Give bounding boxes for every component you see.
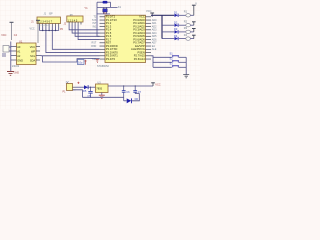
ground at switches bbox=[183, 75, 189, 78]
resistor R1 bbox=[184, 10, 194, 17]
svg-text:Y1: Y1 bbox=[84, 6, 88, 10]
svg-text:S2: S2 bbox=[170, 57, 174, 61]
switch S1 bbox=[153, 52, 186, 58]
diode D5 bbox=[83, 85, 88, 93]
power VCC stub row3 bbox=[192, 29, 196, 32]
wire LED row3 bbox=[162, 31, 174, 33]
wire J1 to U2 row11 bbox=[46, 31, 100, 53]
capacitor C2 reset group bbox=[78, 59, 100, 65]
wires J1 pins down bbox=[40, 27, 59, 31]
capacitor C3 left of U1 bbox=[2, 46, 11, 57]
svg-text:STC89C52: STC89C52 bbox=[97, 65, 109, 68]
power VCC port right of rail bbox=[151, 83, 161, 87]
wire U1 SDA branch bbox=[43, 56, 78, 62]
svg-text:SCL: SCL bbox=[30, 54, 36, 58]
U2 right net labels bbox=[152, 19, 157, 51]
svg-text:VCC: VCC bbox=[30, 28, 35, 31]
wire oscillator loop right bbox=[110, 2, 112, 7]
U2 left pin names bbox=[106, 15, 119, 61]
power VCC bar at U2 pin 40 bbox=[146, 9, 154, 17]
svg-text:VCC: VCC bbox=[155, 84, 160, 87]
svg-text:ISP: ISP bbox=[49, 13, 53, 16]
wire J2 pin1 to U2 bbox=[69, 25, 99, 30]
resistor R4 bbox=[184, 33, 194, 40]
junction dots on J1 bus bbox=[42, 30, 56, 31]
IC U1 body bbox=[17, 39, 37, 64]
svg-text:1 2 3 4 5 6 7: 1 2 3 4 5 6 7 bbox=[38, 21, 53, 24]
power VCC bar above U1 bbox=[30, 20, 41, 43]
wire reset branch bbox=[77, 59, 88, 62]
regulator U3 bbox=[96, 82, 109, 93]
svg-text:VCC: VCC bbox=[1, 34, 6, 37]
svg-text:GND: GND bbox=[17, 59, 23, 63]
wire switch ground vertical bbox=[185, 57, 187, 74]
power VCC pole top right bbox=[192, 2, 197, 16]
LED D4 bbox=[174, 34, 186, 40]
svg-text:C6: C6 bbox=[126, 90, 130, 94]
U2 left net labels bbox=[91, 16, 97, 61]
wire D5 to U3 bbox=[88, 86, 95, 88]
switch S3 bbox=[153, 62, 186, 68]
svg-text:7805: 7805 bbox=[96, 87, 102, 91]
wire J1 to U2 row10 bbox=[52, 31, 99, 50]
power VCC stub row4 bbox=[192, 35, 196, 38]
svg-text:R4: R4 bbox=[184, 33, 188, 37]
LED D1 bbox=[174, 11, 186, 17]
wire LED row2 bbox=[162, 24, 174, 26]
svg-text:A0: A0 bbox=[17, 45, 21, 49]
svg-text:P3.4/T0: P3.4/T0 bbox=[106, 57, 116, 61]
capacitor C6 bbox=[122, 85, 130, 97]
LED D3 bbox=[174, 27, 186, 33]
power VCC stub row2 bbox=[192, 22, 196, 25]
wire U2 pin40 to LED bus bbox=[151, 14, 174, 16]
wire P1 pin2 to ground rail bbox=[73, 90, 83, 98]
wire J2 pin2 to U2 bbox=[72, 25, 99, 34]
power plus mark bbox=[77, 82, 79, 84]
wire crystal net to U2 bbox=[97, 7, 100, 36]
svg-text:1 2 3 4 5: 1 2 3 4 5 bbox=[68, 19, 78, 22]
wire U1 left bus bbox=[11, 42, 13, 72]
svg-text:WP: WP bbox=[31, 50, 35, 54]
U1 left pins bbox=[13, 47, 17, 61]
capacitor C5 input bbox=[88, 87, 93, 98]
svg-text:10u: 10u bbox=[78, 61, 83, 65]
svg-text:R3: R3 bbox=[184, 26, 188, 30]
connector J2 header bbox=[60, 14, 83, 31]
P1 pins bbox=[73, 87, 76, 90]
ground at U3 bbox=[99, 93, 105, 99]
ground flag at U2 pin 20 bbox=[96, 60, 99, 63]
svg-text:S1: S1 bbox=[170, 52, 174, 56]
svg-text:U2: U2 bbox=[103, 11, 107, 15]
U2 right pin names bbox=[131, 15, 145, 61]
svg-text:A1: A1 bbox=[17, 50, 21, 54]
J2 pins bbox=[69, 22, 81, 25]
svg-text:R1: R1 bbox=[184, 10, 188, 14]
svg-text:X1: X1 bbox=[118, 5, 122, 9]
wire LED bus vertical bbox=[161, 15, 163, 38]
svg-text:IN1: IN1 bbox=[93, 25, 97, 28]
wire J2 pin4 to U2 bbox=[78, 25, 99, 40]
switch S2 bbox=[153, 57, 186, 63]
U2 left pins bbox=[100, 17, 106, 59]
wire J2 pin3 to U2 bbox=[75, 25, 99, 37]
power VCC bar left bbox=[1, 22, 17, 40]
crystal Y1 bbox=[84, 6, 107, 12]
svg-text:GND: GND bbox=[14, 71, 20, 74]
wire U3 output rail bbox=[108, 85, 153, 87]
connector J1 header bbox=[31, 13, 61, 24]
wire LED row4 bbox=[162, 38, 174, 40]
U2 right pins bbox=[146, 17, 152, 59]
svg-text:1 2 3 4 5 6 7: 1 2 3 4 5 6 7 bbox=[39, 25, 49, 27]
ground below U1 bbox=[7, 71, 19, 75]
resistor R3 bbox=[184, 26, 194, 33]
wire oscillator mid bbox=[97, 6, 118, 8]
capacitor C7 bbox=[133, 85, 141, 93]
svg-text:D5: D5 bbox=[83, 89, 87, 93]
LED D2 bbox=[174, 21, 186, 27]
svg-text:RXD: RXD bbox=[91, 45, 96, 48]
wire ground rail bbox=[82, 96, 123, 98]
IC U2 microcontroller body bbox=[103, 11, 146, 63]
svg-text:P2.6/A14: P2.6/A14 bbox=[134, 57, 146, 61]
connector P1 DC jack bbox=[63, 81, 73, 93]
svg-text:S3: S3 bbox=[170, 62, 174, 66]
wire U1 to U2 row13 bbox=[40, 55, 100, 57]
wire P1 to D5 bbox=[76, 86, 85, 88]
LED D6 power bbox=[124, 94, 140, 104]
svg-text:V: V bbox=[195, 2, 197, 6]
svg-text:SDA: SDA bbox=[30, 59, 36, 63]
svg-text:VCC: VCC bbox=[30, 45, 36, 49]
wire buttons feed vertical bbox=[151, 56, 153, 68]
svg-text:A2: A2 bbox=[17, 54, 21, 58]
svg-text:VCC: VCC bbox=[146, 9, 152, 13]
svg-text:R2: R2 bbox=[184, 20, 188, 24]
wire oscillator loop left bbox=[96, 2, 98, 7]
svg-text:24C02: 24C02 bbox=[12, 65, 20, 68]
resistor R2 bbox=[184, 20, 194, 27]
J1 pins bbox=[40, 24, 59, 27]
U1 right pins bbox=[36, 47, 40, 61]
capacitor C1 (top of oscillator loop) bbox=[97, 1, 111, 4]
svg-text:ALE: ALE bbox=[152, 48, 157, 51]
wire J1 bus bbox=[40, 30, 59, 32]
wire crystal bottom bbox=[97, 13, 111, 15]
svg-text:D6: D6 bbox=[135, 97, 139, 101]
